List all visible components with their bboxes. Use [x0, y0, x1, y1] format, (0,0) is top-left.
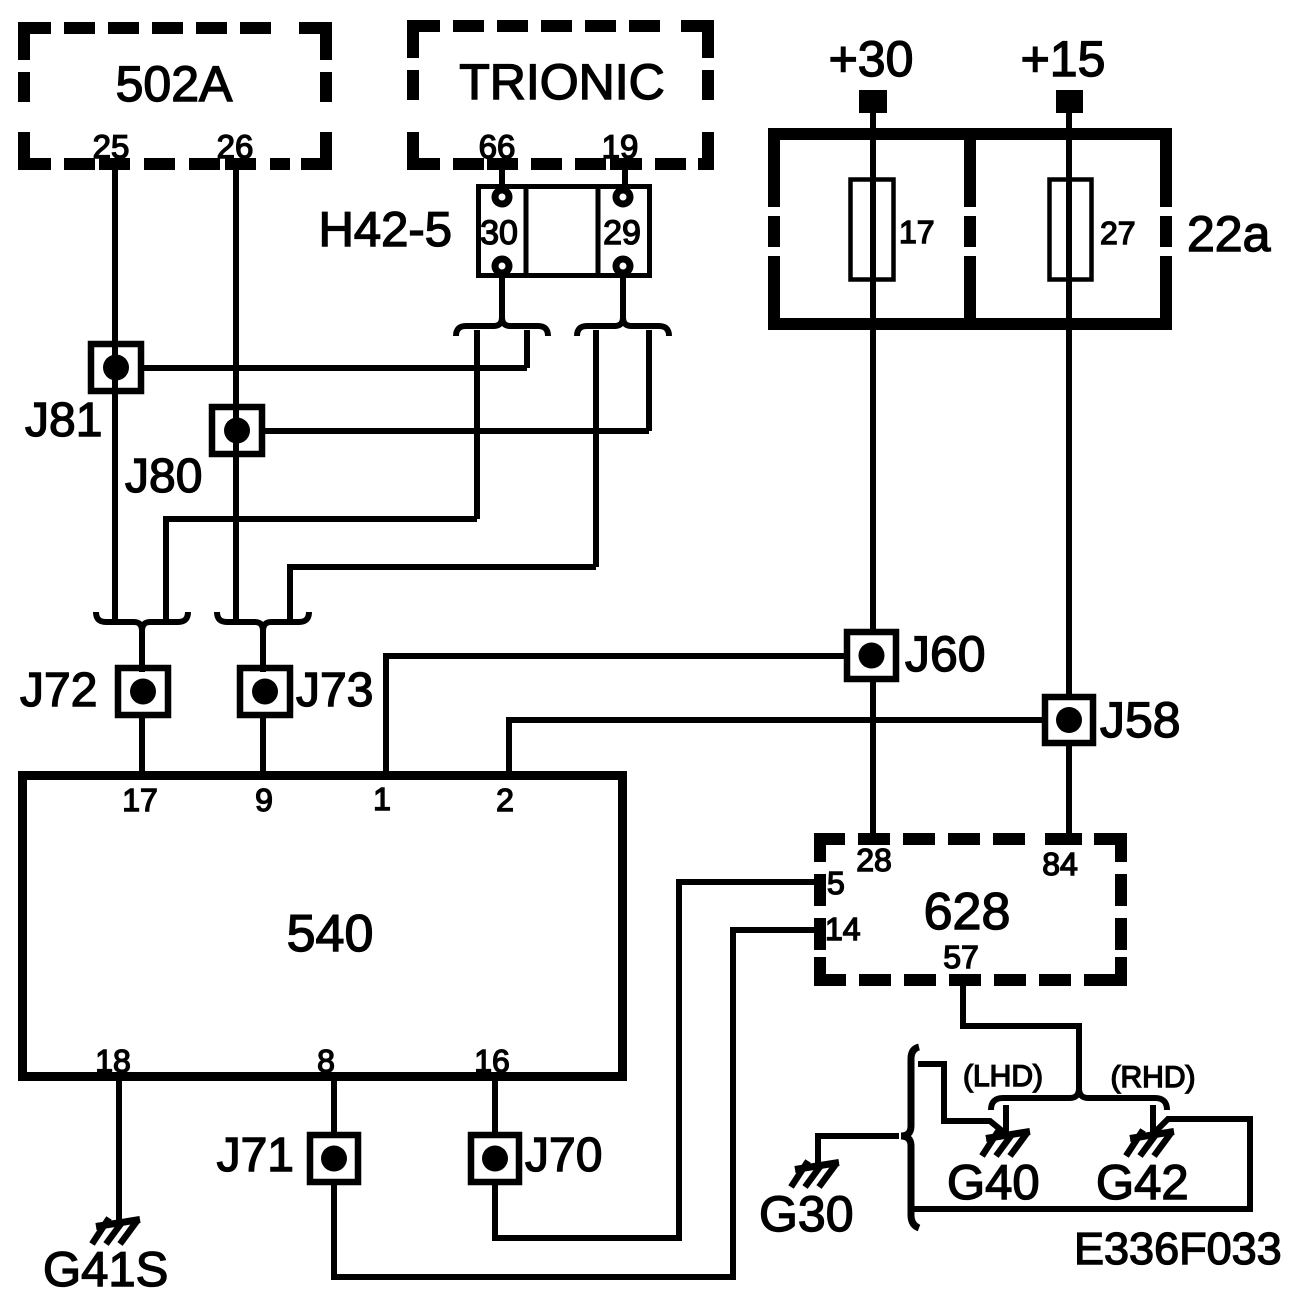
- connector H42-5: [479, 184, 650, 278]
- wire J58 down to 628 pin84: [1066, 743, 1072, 839]
- svg-text:E336F033: E336F033: [1074, 1223, 1282, 1274]
- svg-text:14: 14: [825, 911, 861, 947]
- supply terminal +30: [859, 90, 887, 113]
- pin 16 label (540): [474, 1043, 510, 1079]
- svg-text:TRIONIC: TRIONIC: [459, 54, 665, 110]
- svg-text:22a: 22a: [1187, 206, 1271, 262]
- pin 17 label (540): [122, 782, 158, 818]
- wire 540 pin8 to J71: [331, 1077, 337, 1136]
- wire H42-5 pin29 down to splice S4: [620, 272, 626, 320]
- label J73: [296, 664, 373, 717]
- relay box 628 (dashed): [814, 833, 1127, 986]
- pin 2 label (540): [496, 782, 514, 818]
- svg-text:30: 30: [480, 214, 518, 252]
- label G40: [947, 1156, 1040, 1210]
- label +30: [829, 31, 914, 87]
- svg-text:J70: J70: [525, 1129, 602, 1182]
- svg-text:8: 8: [317, 1043, 335, 1079]
- junction J80: [212, 407, 262, 454]
- wire brace bottom alternative to G42 (RHD path): [911, 1119, 1250, 1209]
- drawing number E336F033: [1074, 1223, 1282, 1274]
- svg-text:G30: G30: [759, 1186, 854, 1242]
- label J60: [905, 626, 986, 682]
- label G41S: [43, 1243, 168, 1297]
- pin 25 label: [93, 128, 130, 165]
- svg-text:2: 2: [496, 782, 514, 818]
- label +15: [1021, 31, 1106, 87]
- splice S2 (bundle brace above J73): [217, 612, 309, 631]
- wire brace top alternative to G40 (LHD path): [918, 1064, 1012, 1139]
- svg-text:+15: +15: [1021, 31, 1106, 87]
- svg-text:9: 9: [255, 782, 273, 818]
- svg-text:J72: J72: [20, 664, 97, 717]
- wire S3 left branch to splice S1 right branch: [166, 519, 477, 620]
- wire 628 pin57 down to LHD/RHD bundle: [963, 980, 1079, 1090]
- splice S3 (bundle brace under pin30): [456, 317, 548, 336]
- wire +30 down through fuse 17 to J60: [870, 110, 876, 632]
- wire 540 pin16 to J70: [492, 1077, 498, 1136]
- wire S4 right branch down to J80 line: [646, 330, 652, 431]
- wire J80 to S4 right branch: [262, 428, 649, 434]
- svg-text:G40: G40: [947, 1156, 1040, 1210]
- wire J71 down around to 628 pin14: [334, 930, 816, 1277]
- label J80: [125, 450, 202, 503]
- pin 5 label (628): [827, 865, 845, 901]
- svg-text:16: 16: [474, 1043, 510, 1079]
- svg-text:J80: J80: [125, 450, 202, 503]
- splice S1 (bundle brace above J72): [96, 612, 188, 631]
- svg-text:25: 25: [93, 128, 130, 165]
- pin 1 label (540): [373, 781, 391, 817]
- wire +15 down through fuse 27 to J58: [1066, 110, 1072, 697]
- svg-text:540: 540: [287, 905, 374, 963]
- pin 9 label (540): [255, 782, 273, 818]
- component box 502A (dashed): [18, 22, 332, 170]
- junction J72: [118, 668, 168, 715]
- svg-text:18: 18: [95, 1043, 131, 1079]
- svg-text:27: 27: [1100, 215, 1136, 251]
- label H42-5: [319, 203, 452, 257]
- ground G40: [982, 1130, 1030, 1156]
- fuse 17: [851, 180, 894, 280]
- bundle brace LHD/RHD alternatives: [991, 1088, 1167, 1110]
- pin 19 label: [602, 128, 639, 165]
- pin 84 label (628): [1042, 846, 1078, 882]
- fuse 17 value label: [899, 214, 935, 250]
- svg-text:H42-5: H42-5: [319, 203, 452, 257]
- svg-text:26: 26: [217, 128, 254, 165]
- pin 26 label: [217, 128, 254, 165]
- wire J81 to S3 right branch: [141, 365, 527, 371]
- label TRIONIC: [459, 54, 665, 110]
- pin 18 label (540): [95, 1043, 131, 1079]
- junction J60: [847, 632, 896, 679]
- label J72: [20, 664, 97, 717]
- svg-text:G41S: G41S: [43, 1243, 168, 1297]
- wire J60 down to 628 pin28: [870, 679, 876, 839]
- wire bundle left to G40: [1003, 1105, 1009, 1135]
- label (LHD): [963, 1060, 1043, 1093]
- label 22a: [1187, 206, 1271, 262]
- pin 28 label (628): [856, 842, 892, 878]
- fuse 27: [1050, 180, 1092, 280]
- label (RHD): [1111, 1061, 1196, 1094]
- pin 30 label: [480, 214, 518, 252]
- wire S4 left branch to splice S2 right branch: [290, 567, 596, 620]
- wire bundle right to G42: [1150, 1105, 1156, 1135]
- ground G30: [791, 1161, 839, 1187]
- splice S4 (bundle brace under pin29): [577, 317, 669, 336]
- svg-text:J58: J58: [1100, 692, 1181, 748]
- svg-text:28: 28: [856, 842, 892, 878]
- svg-text:J73: J73: [296, 664, 373, 717]
- pin 29 label: [603, 214, 641, 252]
- label J81: [25, 394, 102, 447]
- svg-text:G42: G42: [1096, 1156, 1189, 1210]
- fuse box 22a (two cells): [762, 128, 1176, 330]
- junction J58: [1045, 697, 1093, 743]
- wire S2 to J73: [260, 628, 266, 672]
- svg-text:(LHD): (LHD): [963, 1060, 1043, 1093]
- supply terminal +15: [1056, 90, 1083, 113]
- wire 540 pin18 down to ground G41S: [116, 1077, 122, 1222]
- wire H42-5 pin30 down to splice S3: [499, 272, 505, 320]
- wire 540 pin1 up and right to J60: [386, 656, 847, 775]
- pin 66 label: [479, 128, 516, 165]
- junction J71: [310, 1135, 358, 1182]
- svg-text:J60: J60: [905, 626, 986, 682]
- wire J70 down around to 628 pin5: [495, 882, 816, 1238]
- wire pin26 502A down to splice S2: [233, 164, 239, 620]
- label 628: [924, 883, 1011, 941]
- label J70: [525, 1129, 602, 1182]
- alternative selector brace (G30 side): [901, 1047, 919, 1228]
- svg-text:628: 628: [924, 883, 1011, 941]
- svg-text:(RHD): (RHD): [1111, 1061, 1196, 1094]
- ground G41S: [92, 1218, 140, 1244]
- control unit box 540: [23, 776, 623, 1077]
- svg-text:+30: +30: [829, 31, 914, 87]
- wire 540 pin2 up and right to J58: [509, 720, 1045, 775]
- wire S1 to J72: [139, 628, 145, 672]
- svg-text:17: 17: [122, 782, 158, 818]
- wire J72 to 540 pin17: [139, 712, 145, 775]
- wire S3 left branch down then left to node row: [474, 330, 480, 519]
- pin 57 label (628): [943, 939, 979, 975]
- svg-text:29: 29: [603, 214, 641, 252]
- wire TRIONIC pin66 to H42-5 pin30: [499, 164, 505, 190]
- label 502A: [116, 56, 233, 112]
- label J58: [1100, 692, 1181, 748]
- wire TRIONIC pin19 to H42-5 pin29: [622, 164, 628, 190]
- label G42: [1096, 1156, 1189, 1210]
- svg-text:502A: 502A: [116, 56, 233, 112]
- svg-text:57: 57: [943, 939, 979, 975]
- wire G30 to brace: [818, 1136, 899, 1164]
- pin 8 label (540): [317, 1043, 335, 1079]
- svg-text:1: 1: [373, 781, 391, 817]
- svg-text:66: 66: [479, 128, 516, 165]
- junction J73: [240, 668, 290, 715]
- svg-text:J81: J81: [25, 394, 102, 447]
- wire S3 right branch down to J81 line: [524, 330, 530, 368]
- junction J81: [91, 344, 141, 391]
- label 540: [287, 905, 374, 963]
- pin 14 label (628): [825, 911, 861, 947]
- svg-text:5: 5: [827, 865, 845, 901]
- label G30: [759, 1186, 854, 1242]
- junction J70: [471, 1135, 519, 1182]
- label J71: [217, 1129, 294, 1182]
- fuse 27 value label: [1100, 215, 1136, 251]
- wire S4 left branch down: [593, 330, 599, 567]
- svg-text:84: 84: [1042, 846, 1078, 882]
- svg-text:17: 17: [899, 214, 935, 250]
- wire J73 to 540 pin9: [260, 712, 266, 775]
- ground G42: [1126, 1130, 1174, 1156]
- svg-text:19: 19: [602, 128, 639, 165]
- svg-text:J71: J71: [217, 1129, 294, 1182]
- component box TRIONIC (dashed): [407, 20, 714, 170]
- wire pin25 502A down to splice S1: [112, 164, 118, 620]
